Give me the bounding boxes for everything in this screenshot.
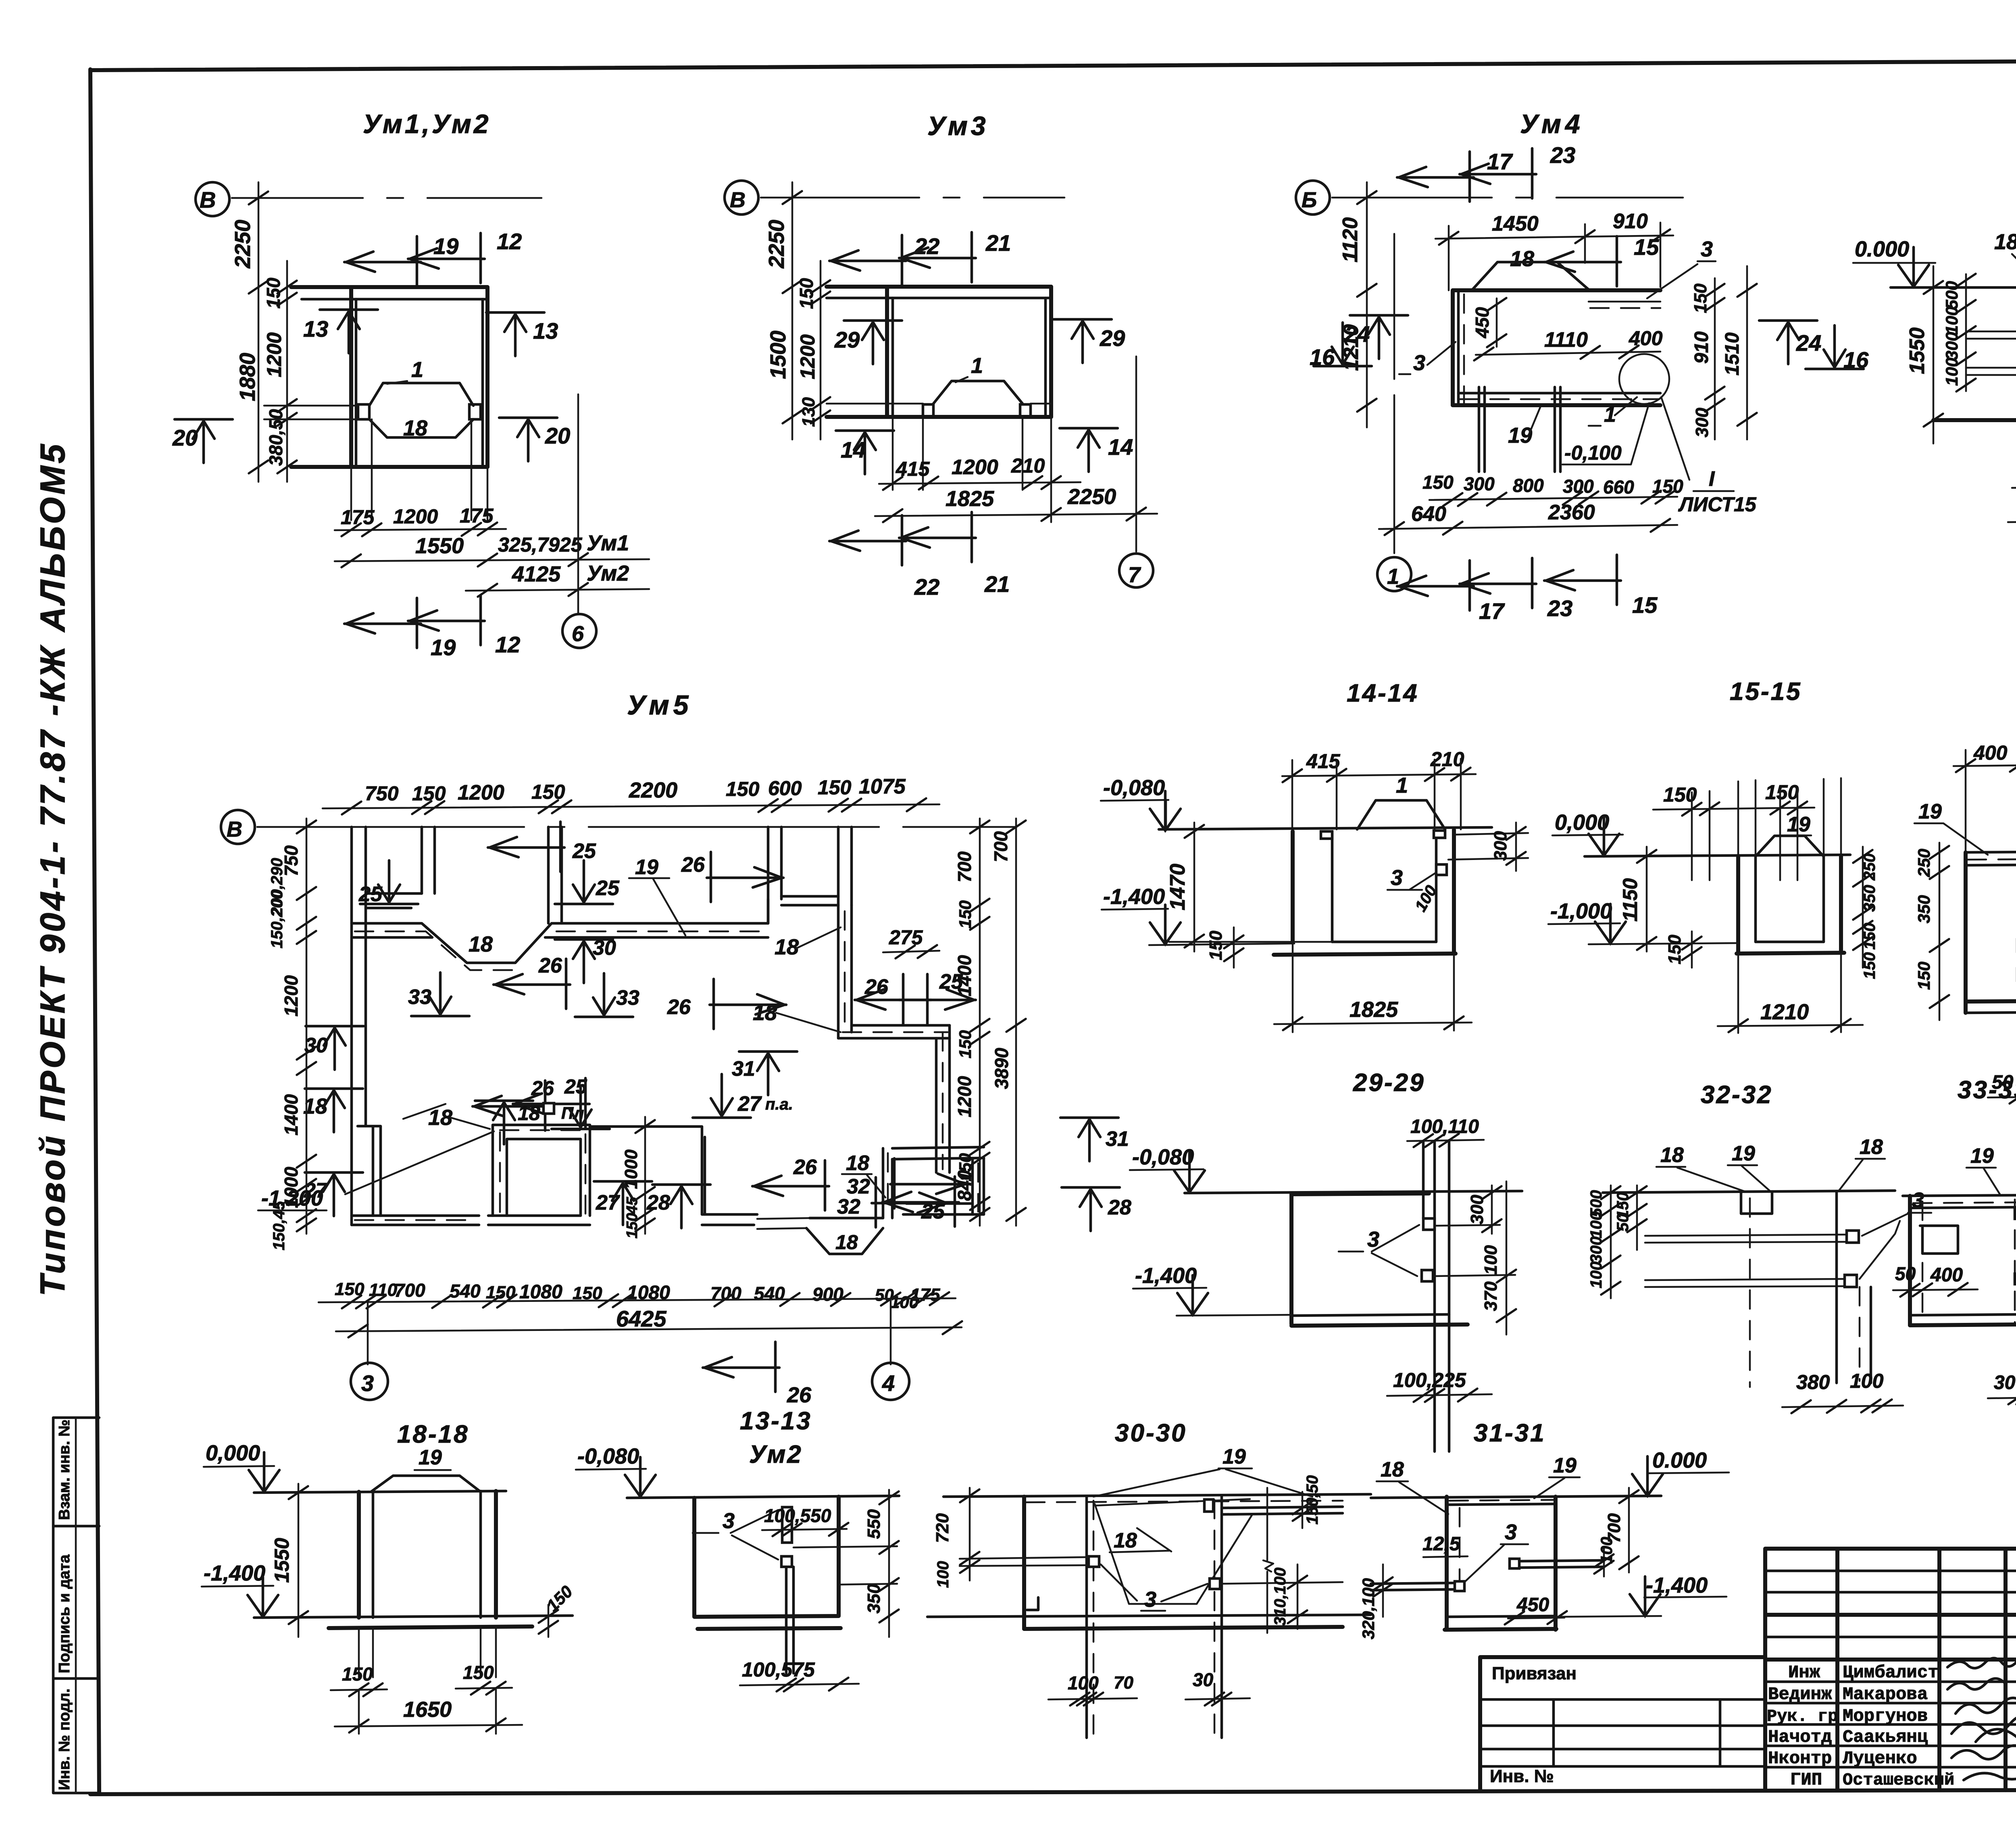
svg-text:1825: 1825 <box>1350 998 1398 1022</box>
svg-text:25: 25 <box>596 877 620 900</box>
svg-text:150: 150 <box>1691 283 1710 313</box>
svg-text:700: 700 <box>710 1283 741 1304</box>
svg-text:275: 275 <box>889 926 923 949</box>
title block: row dividers full <box>1765 1615 2016 1660</box>
svg-text:300: 300 <box>1491 831 1510 861</box>
floor <box>827 415 1051 419</box>
plate level line <box>264 406 358 419</box>
svg-text:500: 500 <box>1942 281 1961 309</box>
svg-text:Б: Б <box>1302 188 1317 212</box>
top band <box>1966 851 2016 852</box>
leader lines from squares to left <box>1966 331 2016 375</box>
svg-text:1200: 1200 <box>281 975 302 1016</box>
svg-text:400: 400 <box>1973 741 2008 764</box>
svg-text:-1,000: -1,000 <box>1550 899 1612 923</box>
svg-text:19: 19 <box>433 233 458 259</box>
svg-text:18: 18 <box>469 932 493 956</box>
svg-text:п.а.: п.а. <box>765 1095 793 1113</box>
mark 27 pl <box>693 1074 751 1118</box>
inner dim line <box>820 261 822 439</box>
svg-text:50: 50 <box>1614 1214 1632 1232</box>
top dashes <box>1913 1202 2016 1203</box>
svg-text:Взам. инв. №: Взам. инв. № <box>56 1420 73 1520</box>
svg-text:300: 300 <box>1467 1195 1487 1225</box>
svg-text:0,000: 0,000 <box>206 1441 260 1465</box>
svg-text:50: 50 <box>1895 1263 1916 1284</box>
svg-text:18: 18 <box>518 1102 540 1125</box>
svg-text:18: 18 <box>835 1231 858 1254</box>
grid line В <box>232 197 541 199</box>
svg-text:700: 700 <box>394 1280 425 1301</box>
grid line <box>1332 197 1683 199</box>
svg-text:1650: 1650 <box>403 1697 452 1722</box>
svg-text:21: 21 <box>984 571 1010 597</box>
svg-text:7: 7 <box>1128 563 1141 587</box>
svg-text:1825: 1825 <box>946 487 994 511</box>
stamp table frame <box>53 1418 99 1793</box>
channel trapezoid 19 <box>933 381 1023 404</box>
svg-text:18: 18 <box>1381 1458 1404 1481</box>
main vertical dim line <box>258 182 260 482</box>
svg-text:19: 19 <box>1223 1445 1246 1468</box>
svg-text:720: 720 <box>933 1513 952 1543</box>
svg-text:150,50: 150,50 <box>1304 1475 1321 1524</box>
svg-text:1150: 1150 <box>1619 878 1641 922</box>
svg-text:0.000: 0.000 <box>1652 1448 1707 1472</box>
left wall <box>1451 290 1455 405</box>
svg-text:3: 3 <box>1505 1520 1517 1544</box>
svg-text:-0,100: -0,100 <box>1564 441 1622 464</box>
svg-text:25: 25 <box>564 1075 587 1098</box>
svg-text:175: 175 <box>460 504 494 527</box>
svg-text:400: 400 <box>1629 327 1663 350</box>
left wall <box>1289 1194 1293 1324</box>
svg-text:150: 150 <box>1765 781 1799 804</box>
svg-text:-1.200: -1.200 <box>261 1186 323 1210</box>
grid bubble В <box>221 810 255 844</box>
bottom-left step <box>358 1126 381 1216</box>
svg-text:300: 300 <box>1464 473 1495 494</box>
svg-text:150: 150 <box>818 776 852 799</box>
dim 300 right <box>1448 833 1528 860</box>
recess 1000 under shaft right <box>590 1127 705 1214</box>
right square leader <box>1519 1560 1604 1568</box>
svg-text:250: 250 <box>1861 854 1879 881</box>
svg-text:540: 540 <box>450 1281 481 1302</box>
svg-text:18: 18 <box>1860 1135 1883 1159</box>
svg-text:19: 19 <box>1970 1144 1994 1168</box>
dim 1470 left <box>1193 823 1195 952</box>
svg-text:19: 19 <box>1553 1454 1577 1477</box>
svg-text:300: 300 <box>1692 408 1712 437</box>
bottom band with V dip <box>352 1216 479 1225</box>
svg-text:29: 29 <box>834 327 860 352</box>
mark 27 inside shaft <box>594 1181 652 1225</box>
svg-text:15: 15 <box>1634 234 1659 260</box>
slab <box>827 285 1051 289</box>
svg-text:ЛИСТ15: ЛИСТ15 <box>1678 493 1757 516</box>
wall verticals from grid <box>352 827 366 1225</box>
page frame left border <box>90 69 99 1794</box>
svg-text:1550: 1550 <box>271 1538 293 1583</box>
svg-text:Нконтр: Нконтр <box>1768 1749 1832 1769</box>
left wall <box>349 287 353 467</box>
svg-text:1: 1 <box>411 358 423 382</box>
svg-text:800: 800 <box>1513 475 1544 496</box>
svg-text:100: 100 <box>1942 358 1961 386</box>
svg-text:1470: 1470 <box>1166 864 1189 910</box>
vertical dim 1550 <box>1933 266 1935 444</box>
left embed plate <box>358 404 369 419</box>
svg-text:2200: 2200 <box>629 778 677 802</box>
svg-text:14: 14 <box>841 437 866 462</box>
svg-text:20: 20 <box>545 423 570 448</box>
svg-text:1: 1 <box>1604 402 1616 427</box>
title block: name rows <box>1765 1682 2016 1767</box>
svg-text:28: 28 <box>646 1191 670 1214</box>
svg-text:415: 415 <box>1306 750 1341 773</box>
svg-text:1080: 1080 <box>519 1281 562 1303</box>
svg-text:3: 3 <box>1413 351 1425 375</box>
svg-text:3: 3 <box>1701 237 1713 261</box>
svg-text:19: 19 <box>635 856 658 879</box>
channel trapezoid hump <box>1472 262 1589 289</box>
floor line <box>291 465 487 469</box>
svg-text:3: 3 <box>1391 866 1403 890</box>
ground line <box>1891 286 2016 289</box>
svg-text:150: 150 <box>624 1213 641 1238</box>
svg-text:30: 30 <box>593 936 616 960</box>
svg-text:2360: 2360 <box>1548 501 1595 524</box>
svg-text:30: 30 <box>1193 1669 1214 1690</box>
svg-text:31: 31 <box>1106 1127 1129 1151</box>
box <box>1445 1497 1449 1630</box>
svg-text:6: 6 <box>572 622 584 646</box>
svg-text:16: 16 <box>1310 344 1335 370</box>
section 14 left <box>836 431 894 474</box>
right bottom band segment <box>903 1204 984 1214</box>
svg-text:Вединж: Вединж <box>1768 1685 1832 1705</box>
svg-text:26: 26 <box>681 853 705 877</box>
svg-text:0,000: 0,000 <box>1555 810 1609 835</box>
svg-text:30-30: 30-30 <box>1115 1419 1187 1447</box>
svg-text:Макарова: Макарова <box>1843 1685 1928 1705</box>
svg-text:1: 1 <box>1396 773 1408 798</box>
svg-text:1210: 1210 <box>1760 1000 1809 1024</box>
thin band then V dip 18 <box>757 1218 810 1229</box>
Привязан box left of title block <box>1480 1657 1765 1790</box>
wall stubs below slab <box>1479 387 1560 472</box>
svg-text:350: 350 <box>1861 885 1879 912</box>
centerline to bubble 7 <box>1135 356 1137 552</box>
svg-text:18: 18 <box>775 935 799 959</box>
svg-text:3: 3 <box>723 1509 735 1533</box>
svg-text:Ум2: Ум2 <box>587 561 629 585</box>
svg-text:29: 29 <box>1100 325 1125 351</box>
wall stubs below <box>893 417 1051 522</box>
svg-text:660: 660 <box>1603 477 1634 498</box>
svg-text:150: 150 <box>1206 931 1226 960</box>
svg-text:350: 350 <box>1914 895 1933 923</box>
grid bubble 7 <box>1119 554 1153 587</box>
section mark 23 top <box>1460 148 1536 198</box>
svg-text:210: 210 <box>1011 454 1045 477</box>
svg-text:18-18: 18-18 <box>397 1420 469 1448</box>
svg-text:15-15: 15-15 <box>1730 678 1802 706</box>
svg-text:19: 19 <box>1918 800 1942 823</box>
grid bubble 4 <box>872 1363 909 1400</box>
left wall <box>1291 831 1295 942</box>
svg-text:100: 100 <box>1850 1370 1884 1392</box>
svg-text:Саакьянц: Саакьянц <box>1843 1727 1928 1747</box>
section mark 19 bottom <box>344 598 421 648</box>
left outer wall <box>1022 1497 1026 1629</box>
plate level lines <box>827 403 1051 405</box>
left rotated dim stack <box>306 818 308 1234</box>
svg-text:23: 23 <box>1550 142 1575 168</box>
svg-text:18: 18 <box>1994 230 2016 254</box>
right wall down to bottom <box>973 1158 984 1214</box>
svg-text:Ум2: Ум2 <box>749 1441 803 1468</box>
verticals right pair <box>1423 1140 1449 1451</box>
svg-text:70: 70 <box>1114 1673 1133 1693</box>
section mark 12 top <box>408 233 485 283</box>
right wall <box>485 287 489 467</box>
ground line <box>943 1494 1371 1497</box>
svg-text:4: 4 <box>882 1370 895 1396</box>
top slab <box>291 285 487 289</box>
svg-text:1120: 1120 <box>1339 217 1362 262</box>
svg-text:100: 100 <box>1481 1245 1501 1275</box>
walls <box>357 1492 361 1618</box>
grid bubble Б <box>1296 181 1330 214</box>
svg-text:12: 12 <box>497 229 522 254</box>
svg-text:26: 26 <box>538 954 562 977</box>
left wall <box>885 287 889 417</box>
svg-text:31-31: 31-31 <box>1474 1419 1546 1447</box>
left wall <box>1964 852 1968 1013</box>
left rotated dims 250 350 150 <box>1939 843 1941 1020</box>
svg-text:13: 13 <box>303 316 328 342</box>
title block: name table verticals <box>1837 1549 2016 1790</box>
floor lines <box>927 1615 1371 1617</box>
svg-text:130: 130 <box>799 397 818 427</box>
right wall <box>1049 287 1053 417</box>
section mark 19 top <box>344 236 421 286</box>
left margin stamp table <box>53 1418 99 1793</box>
ground line <box>1903 1194 2016 1196</box>
top dim extensions <box>1738 778 1841 856</box>
svg-text:Привязан: Привязан <box>1492 1664 1577 1683</box>
bottom floor <box>1291 1314 1449 1316</box>
svg-text:100,575: 100,575 <box>742 1658 815 1681</box>
svg-text:700: 700 <box>954 851 975 882</box>
middle shaft <box>493 1125 590 1216</box>
svg-text:19: 19 <box>431 635 456 660</box>
grid bubble 6 <box>562 614 596 648</box>
bottom slab <box>1332 941 1436 943</box>
svg-text:12: 12 <box>495 632 520 657</box>
vertical dashed pair down from 600 <box>838 905 852 1038</box>
svg-text:150: 150 <box>1422 472 1454 493</box>
right thin vertical with break <box>1266 1488 1268 1633</box>
svg-text:640: 640 <box>1411 502 1446 526</box>
top-left wall band <box>366 893 422 908</box>
page frame bottom border <box>90 1789 2016 1794</box>
section mark 17 top <box>1397 152 1474 202</box>
svg-text:Осташевский: Осташевский <box>1843 1770 1954 1790</box>
section mark 13 left <box>320 310 378 353</box>
svg-text:150: 150 <box>1914 962 1933 990</box>
signatures squiggles <box>1947 1658 2016 1668</box>
svg-text:1550: 1550 <box>415 534 464 558</box>
svg-text:18: 18 <box>846 1152 869 1175</box>
grid line В <box>257 826 1016 828</box>
svg-text:100,225: 100,225 <box>1393 1369 1466 1391</box>
mark 25 left arrow <box>488 822 564 872</box>
mark 30 up <box>555 939 613 983</box>
section 22 21 bottom <box>829 515 906 565</box>
right leader lines <box>1220 1582 1343 1584</box>
bottom slab <box>1966 1000 2016 1002</box>
svg-text:1200: 1200 <box>954 1076 975 1117</box>
svg-text:13-13: 13-13 <box>740 1407 812 1435</box>
bottom slab <box>1453 403 1660 407</box>
svg-text:-1,400: -1,400 <box>1103 885 1165 909</box>
svg-text:1200: 1200 <box>263 332 285 377</box>
section mark 20 right <box>499 418 557 461</box>
marks 24 16 right <box>1759 321 1817 364</box>
svg-text:27: 27 <box>596 1191 620 1214</box>
svg-text:3: 3 <box>361 1370 374 1396</box>
svg-text:22: 22 <box>914 233 939 259</box>
svg-text:325,7925: 325,7925 <box>498 533 583 556</box>
svg-text:I: I <box>1709 467 1715 491</box>
trapezoid 19 <box>371 1476 481 1492</box>
svg-text:В: В <box>227 817 242 841</box>
svg-text:1400: 1400 <box>954 955 975 996</box>
svg-text:1: 1 <box>971 354 983 378</box>
svg-text:Подпись и дата: Подпись и дата <box>56 1554 73 1673</box>
svg-text:1000: 1000 <box>621 1150 641 1189</box>
svg-text:33: 33 <box>408 985 431 1009</box>
svg-text:310,100: 310,100 <box>1271 1568 1289 1626</box>
wall stub lines below <box>351 419 487 520</box>
svg-text:2250: 2250 <box>231 220 255 269</box>
svg-text:380,50: 380,50 <box>265 409 286 466</box>
right dims 300 370 100 <box>1492 1181 1506 1335</box>
top slab <box>1453 288 1660 292</box>
vertical dim 1120/1210 <box>1366 182 1368 427</box>
small square 1 <box>1423 1218 1435 1230</box>
excavation pocket <box>1095 1499 1252 1604</box>
inner vertical dim line <box>286 261 288 482</box>
svg-text:3890: 3890 <box>991 1047 1012 1089</box>
grid bubble 1 <box>1377 557 1411 591</box>
grid bubble В <box>725 181 758 214</box>
ground line <box>1159 827 1492 829</box>
left step notch <box>1027 1597 1038 1610</box>
ground line <box>627 1496 899 1498</box>
svg-text:Луценко: Луценко <box>1843 1749 1917 1769</box>
svg-text:2250: 2250 <box>764 220 789 269</box>
svg-text:Ум4: Ум4 <box>1520 109 1584 139</box>
box: left wall <box>1908 1196 1912 1325</box>
svg-text:350: 350 <box>864 1584 884 1614</box>
svg-text:Ум3: Ум3 <box>927 111 989 141</box>
svg-text:150: 150 <box>342 1664 373 1685</box>
svg-text:2250: 2250 <box>1067 485 1116 509</box>
ground line <box>1371 1496 1661 1498</box>
channel octagon 18 <box>369 383 473 437</box>
section 29 left <box>844 321 902 364</box>
svg-text:540: 540 <box>754 1283 785 1304</box>
inner hole rectangle <box>1920 1226 1958 1254</box>
squares on walls <box>1089 1556 1099 1567</box>
inner plates <box>782 1507 792 1543</box>
svg-text:26: 26 <box>667 995 691 1019</box>
svg-text:1550: 1550 <box>1906 327 1929 374</box>
privyazan inner lines <box>1480 1699 1765 1766</box>
svg-text:30: 30 <box>304 1034 328 1057</box>
svg-text:23: 23 <box>1547 596 1572 621</box>
svg-text:25: 25 <box>921 1200 945 1223</box>
title block: narrow rows top <box>1765 1571 2016 1637</box>
svg-text:Инв. №: Инв. № <box>1490 1766 1554 1786</box>
svg-text:320,100: 320,100 <box>1359 1578 1378 1639</box>
svg-text:Типовой ПРОЕКТ 904-1- 77.87: Типовой ПРОЕКТ 904-1- 77.87 -КЖ АЛЬБОМ5 <box>33 442 72 1296</box>
svg-text:Инв. № подл.: Инв. № подл. <box>56 1689 73 1790</box>
grid line <box>761 197 1064 199</box>
squares on right wall <box>2015 1208 2016 1219</box>
svg-text:3: 3 <box>1144 1587 1156 1612</box>
svg-text:300: 300 <box>1587 1237 1605 1264</box>
svg-text:150: 150 <box>956 900 975 929</box>
left rotated dims stack <box>1611 1185 1637 1298</box>
ground line <box>254 1491 506 1493</box>
ground line <box>1603 1191 1895 1193</box>
left leader from square <box>1371 1583 1455 1590</box>
svg-text:В: В <box>730 188 746 212</box>
svg-text:21: 21 <box>985 230 1011 256</box>
svg-text:150: 150 <box>263 277 284 308</box>
section mark 20 left <box>175 419 233 463</box>
dashed wall centerlines <box>1085 1497 1088 1738</box>
svg-text:100: 100 <box>1587 1262 1605 1289</box>
svg-text:1200: 1200 <box>952 456 998 479</box>
svg-text:1200: 1200 <box>393 505 438 528</box>
section 29 right <box>1054 319 1112 363</box>
svg-text:20: 20 <box>172 425 198 450</box>
wall stubs below <box>359 1626 496 1677</box>
svg-text:28: 28 <box>1108 1196 1131 1219</box>
svg-text:100: 100 <box>1598 1537 1616 1564</box>
svg-text:-0,080: -0,080 <box>577 1444 639 1468</box>
mark 26 bottom <box>703 1342 779 1392</box>
floor lines <box>254 1616 573 1618</box>
svg-text:700: 700 <box>990 831 1011 862</box>
svg-text:18: 18 <box>1510 247 1534 271</box>
svg-text:1880: 1880 <box>235 353 260 401</box>
svg-text:-0,080: -0,080 <box>1103 776 1165 800</box>
section mark 15 top right <box>1544 236 1621 286</box>
walls <box>1736 856 1740 953</box>
left plate small <box>1321 831 1332 839</box>
svg-text:-1,400: -1,400 <box>1646 1573 1708 1597</box>
svg-text:1400: 1400 <box>281 1094 302 1135</box>
svg-text:26: 26 <box>793 1156 817 1179</box>
centerline to bubble 1 <box>1393 234 1395 553</box>
